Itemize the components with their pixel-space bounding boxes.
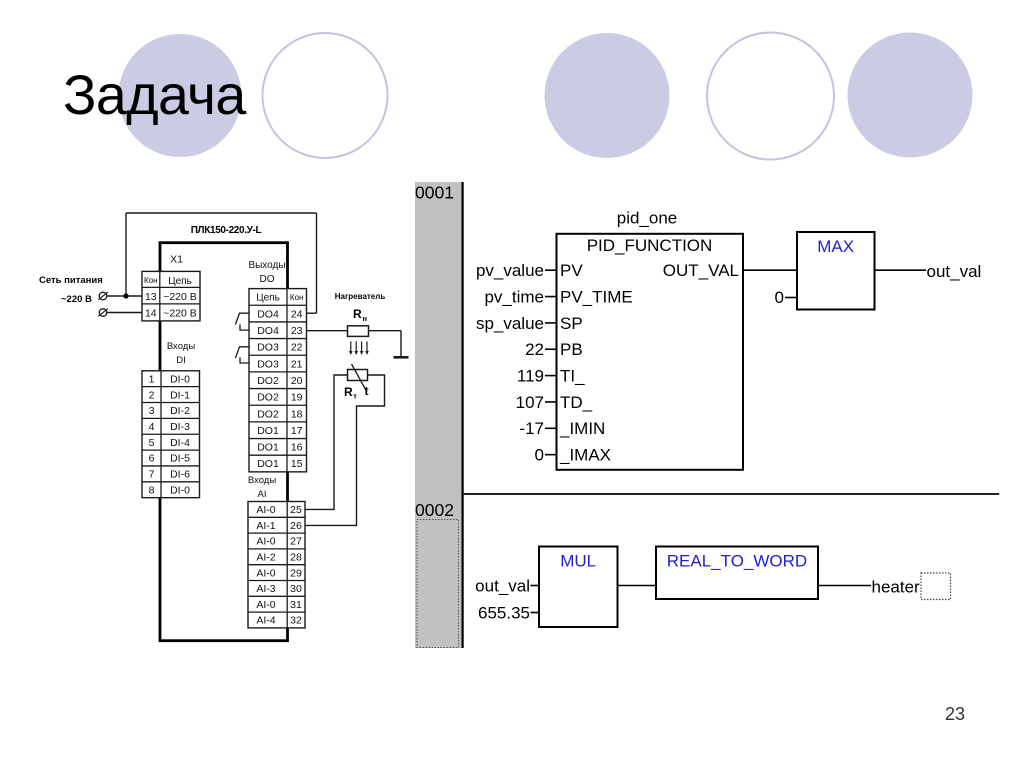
svg-text:DI-5: DI-5 — [170, 453, 190, 465]
svg-text:DO2: DO2 — [257, 408, 279, 420]
svg-text:MAX: MAX — [817, 237, 854, 256]
svg-text:30: 30 — [290, 583, 302, 595]
svg-text:DO2: DO2 — [257, 375, 279, 387]
svg-text:PB: PB — [560, 340, 583, 359]
svg-text:Задача: Задача — [63, 64, 246, 126]
svg-text:н: н — [363, 314, 368, 323]
svg-text:AI-4: AI-4 — [256, 615, 275, 627]
svg-text:DI-4: DI-4 — [170, 437, 190, 449]
svg-text:24: 24 — [291, 308, 303, 320]
svg-text:119: 119 — [517, 367, 544, 386]
svg-text:18: 18 — [291, 408, 303, 420]
svg-text:29: 29 — [290, 567, 302, 579]
svg-text:heater: heater — [872, 578, 921, 597]
svg-text:32: 32 — [290, 615, 302, 627]
svg-text:DO3: DO3 — [257, 342, 279, 354]
svg-text:MUL: MUL — [560, 552, 596, 571]
svg-text:DO3: DO3 — [257, 358, 279, 370]
svg-text:DO4: DO4 — [257, 325, 279, 337]
svg-text:Выходы: Выходы — [248, 260, 285, 271]
svg-text:13: 13 — [145, 291, 157, 303]
svg-text:16: 16 — [291, 442, 303, 454]
svg-text:17: 17 — [291, 425, 303, 437]
svg-text:AI: AI — [258, 489, 267, 500]
svg-text:TI_: TI_ — [560, 367, 585, 386]
svg-text:~220 В: ~220 В — [163, 291, 197, 303]
svg-text:15: 15 — [291, 458, 303, 470]
svg-text:Входы: Входы — [248, 475, 276, 486]
svg-text:0: 0 — [775, 288, 784, 307]
svg-text:SP: SP — [560, 314, 583, 333]
svg-text:28: 28 — [290, 552, 302, 564]
svg-text:AI-0: AI-0 — [256, 567, 275, 579]
svg-text:t: t — [365, 384, 369, 398]
svg-text:AI-2: AI-2 — [256, 552, 275, 564]
svg-text:out_val: out_val — [927, 262, 982, 281]
svg-text:5: 5 — [149, 437, 155, 449]
svg-text:pv_time: pv_time — [484, 287, 544, 306]
svg-text:3: 3 — [149, 405, 155, 417]
svg-text:22: 22 — [525, 340, 544, 359]
svg-text:sp_value: sp_value — [476, 314, 544, 333]
svg-text:1: 1 — [149, 373, 155, 385]
svg-text:AI-0: AI-0 — [256, 536, 275, 548]
svg-text:AI-0: AI-0 — [256, 599, 275, 611]
svg-text:655.35: 655.35 — [478, 603, 530, 622]
svg-text:0: 0 — [535, 446, 544, 465]
svg-text:TD_: TD_ — [560, 393, 593, 412]
svg-text:DI-3: DI-3 — [170, 421, 190, 433]
svg-text:21: 21 — [291, 358, 303, 370]
svg-text:8: 8 — [149, 484, 155, 496]
svg-text:PV: PV — [560, 261, 583, 280]
svg-text:Цепь: Цепь — [256, 293, 280, 304]
svg-text:0001: 0001 — [415, 183, 454, 203]
svg-text:X1: X1 — [170, 254, 183, 266]
svg-text:Кон: Кон — [144, 276, 158, 285]
svg-text:Сеть питания: Сеть питания — [39, 275, 103, 286]
svg-text:R: R — [353, 307, 362, 321]
svg-text:~220 В: ~220 В — [163, 308, 197, 320]
svg-text:DO: DO — [260, 274, 275, 285]
svg-text:DO2: DO2 — [257, 392, 279, 404]
svg-text:DI-0: DI-0 — [170, 373, 190, 385]
svg-text:4: 4 — [149, 421, 155, 433]
svg-text:107: 107 — [516, 393, 544, 412]
svg-text:25: 25 — [290, 504, 302, 516]
svg-text:_IMAX: _IMAX — [559, 446, 611, 465]
svg-text:19: 19 — [291, 392, 303, 404]
svg-text:-17: -17 — [519, 419, 544, 438]
svg-text:DI-0: DI-0 — [170, 484, 190, 496]
svg-text:Входы: Входы — [167, 341, 195, 352]
svg-text:31: 31 — [290, 599, 302, 611]
svg-text:Цепь: Цепь — [168, 276, 192, 287]
svg-text:Нагреватель: Нагреватель — [335, 292, 386, 301]
svg-text:DO1: DO1 — [257, 425, 279, 437]
svg-text:20: 20 — [291, 375, 303, 387]
svg-text:Кон: Кон — [290, 293, 304, 302]
svg-text:AI-3: AI-3 — [256, 583, 275, 595]
svg-text:DO1: DO1 — [257, 442, 279, 454]
svg-text:pid_one: pid_one — [617, 209, 678, 228]
svg-text:6: 6 — [149, 453, 155, 465]
svg-text:DI-6: DI-6 — [170, 469, 190, 481]
svg-text:DO4: DO4 — [257, 308, 279, 320]
svg-text:out_val: out_val — [475, 576, 530, 595]
svg-text:27: 27 — [290, 536, 302, 548]
svg-text:DI-2: DI-2 — [170, 405, 190, 417]
svg-text:DI: DI — [176, 355, 186, 366]
svg-text:PV_TIME: PV_TIME — [560, 287, 633, 306]
svg-text:23: 23 — [945, 704, 965, 724]
svg-text:PID_FUNCTION: PID_FUNCTION — [587, 236, 713, 255]
svg-text:AI-1: AI-1 — [256, 520, 275, 532]
svg-text:23: 23 — [291, 325, 303, 337]
svg-text:т: т — [353, 392, 357, 401]
svg-text:REAL_TO_WORD: REAL_TO_WORD — [667, 552, 807, 571]
svg-text:14: 14 — [145, 308, 157, 320]
svg-text:DI-1: DI-1 — [170, 389, 190, 401]
svg-text:pv_value: pv_value — [476, 261, 544, 280]
svg-text:DO1: DO1 — [257, 458, 279, 470]
svg-text:26: 26 — [290, 520, 302, 532]
svg-text:0002: 0002 — [415, 500, 454, 520]
svg-text:~220 В: ~220 В — [61, 294, 92, 305]
svg-text:AI-0: AI-0 — [256, 504, 275, 516]
svg-text:7: 7 — [149, 469, 155, 481]
svg-text:OUT_VAL: OUT_VAL — [663, 261, 739, 280]
svg-text:_IMIN: _IMIN — [559, 419, 605, 438]
svg-text:22: 22 — [291, 342, 303, 354]
svg-text:ПЛК150-220.У-L: ПЛК150-220.У-L — [191, 225, 262, 236]
svg-text:R: R — [344, 385, 353, 399]
svg-text:2: 2 — [149, 389, 155, 401]
